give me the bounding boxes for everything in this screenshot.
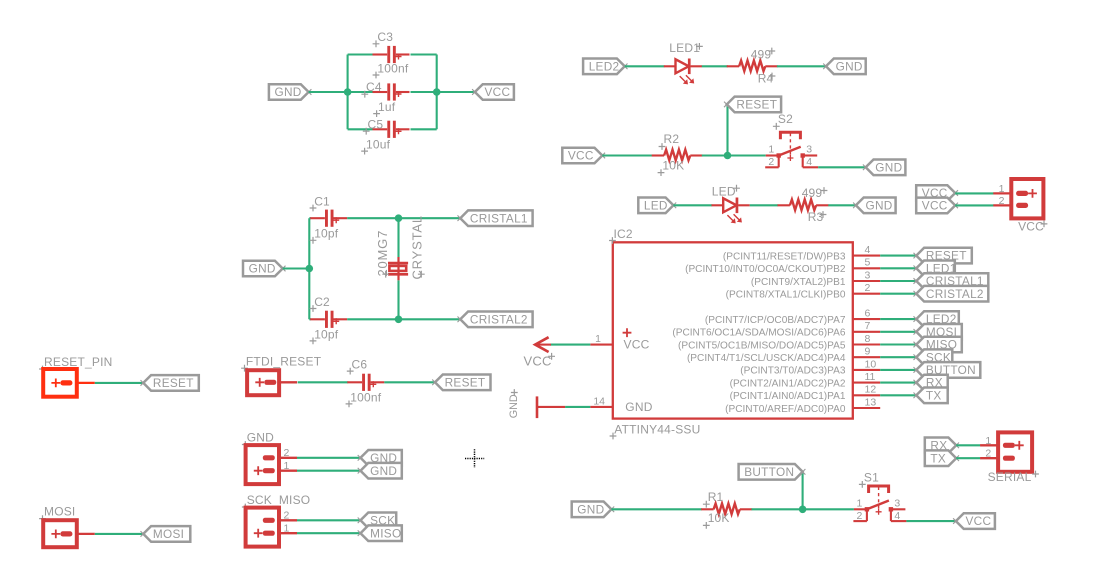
svg-text:RESET: RESET xyxy=(736,98,777,112)
wire FTDI_RESET to C6 xyxy=(298,381,349,383)
svg-text:11: 11 xyxy=(865,371,876,383)
svg-text:VCC: VCC xyxy=(922,199,948,213)
svg-text:4: 4 xyxy=(865,244,871,256)
capacitor C4 xyxy=(373,91,388,93)
wire pin to CRISTAL1 flag xyxy=(880,280,916,282)
wire VCC pin1 xyxy=(955,192,993,194)
wire C1 row left xyxy=(309,217,311,219)
wire R1 to junction xyxy=(752,508,803,510)
svg-text:GND: GND xyxy=(836,59,863,73)
wire pin to CRISTAL2 flag xyxy=(880,293,916,295)
net flag TX (IC right) xyxy=(916,388,947,404)
net flag VCC (conn pin1) xyxy=(916,185,955,201)
wire pin to MISO flag xyxy=(880,343,916,345)
junction right rail xyxy=(433,88,441,96)
IC2 pin 2 PB0 xyxy=(853,293,880,295)
wire pin to SCK flag xyxy=(880,356,916,358)
svg-text:C1: C1 xyxy=(314,194,330,208)
sheet origin crosshair xyxy=(465,449,484,468)
svg-text:9: 9 xyxy=(865,346,871,358)
svg-text:10pf: 10pf xyxy=(314,327,339,341)
svg-text:(PCINT8/XTAL1/CLKI)PB0: (PCINT8/XTAL1/CLKI)PB0 xyxy=(726,290,846,301)
junction crystal top xyxy=(395,214,403,222)
net flag RESET (reset circuit) xyxy=(727,97,781,113)
wire C5 row right xyxy=(411,128,437,130)
net flag VCC (reset row) xyxy=(562,148,602,164)
svg-text:2: 2 xyxy=(284,447,290,459)
IC2 pin 8 PA5 xyxy=(853,343,880,345)
IC2 pin 12 PA1 xyxy=(853,394,880,396)
wire GND pin2 to flag xyxy=(297,457,361,459)
wire pin to RX flag xyxy=(880,382,916,384)
svg-text:(PCINT5/OC1B/MISO/DO/ADC5)PA5: (PCINT5/OC1B/MISO/DO/ADC5)PA5 xyxy=(678,340,846,351)
IC2 pin 9 PA4 xyxy=(853,356,880,358)
wire SCK pin2 to flag xyxy=(297,519,361,521)
wire LED to R3 xyxy=(750,204,779,206)
net flag GND (crystal) xyxy=(243,261,283,277)
wire S2 to GND xyxy=(818,166,866,168)
svg-text:TX: TX xyxy=(926,388,942,402)
svg-text:10K: 10K xyxy=(662,158,684,172)
net flag RESET (IC right) xyxy=(916,248,972,264)
svg-text:(PCINT0/AREF/ADC0)PA0: (PCINT0/AREF/ADC0)PA0 xyxy=(725,404,846,415)
svg-text:2: 2 xyxy=(999,195,1005,207)
svg-text:2: 2 xyxy=(284,510,290,522)
capacitor C6 xyxy=(347,381,362,383)
svg-text:VCC: VCC xyxy=(624,338,650,352)
svg-text:7: 7 xyxy=(865,320,871,332)
net flag RX (IC right) xyxy=(916,375,947,391)
svg-text:2: 2 xyxy=(857,510,863,522)
IC2 pin 7 PA6 xyxy=(853,331,880,333)
LED LED1 xyxy=(664,65,676,67)
svg-text:MOSI: MOSI xyxy=(44,505,75,519)
net flag GND (cap bank) xyxy=(269,84,309,100)
svg-text:C5: C5 xyxy=(368,118,384,132)
wire pin to LED1 flag xyxy=(880,267,916,269)
capacitor C2 xyxy=(310,318,325,320)
resistor R1 xyxy=(701,508,713,510)
net flag VCC (cap bank) xyxy=(475,84,514,100)
svg-text:CRISTAL2: CRISTAL2 xyxy=(926,287,984,301)
crystal Q1 20MG7 xyxy=(397,257,399,280)
svg-text:SERIAL: SERIAL xyxy=(988,470,1032,484)
wire pin14 to GND symbol xyxy=(565,406,590,408)
net flag RX xyxy=(925,438,956,454)
svg-text:GND: GND xyxy=(508,394,520,418)
wire pin1 to VCC arrow xyxy=(550,344,590,346)
svg-text:1uf: 1uf xyxy=(378,100,396,114)
connector VCC xyxy=(1011,179,1043,218)
net flag MISO (IC right) xyxy=(916,337,962,353)
svg-text:VCC: VCC xyxy=(1018,220,1044,234)
svg-text:GND: GND xyxy=(866,198,893,212)
wire GND pin1 to flag xyxy=(297,470,361,472)
svg-text:3: 3 xyxy=(865,269,871,281)
svg-text:(PCINT10/INT0/OC0A/CKOUT)PB2: (PCINT10/INT0/OC0A/CKOUT)PB2 xyxy=(685,264,846,275)
wire GND to R1 xyxy=(611,508,702,510)
LED LED xyxy=(712,204,724,206)
net flag MOSI (conn) xyxy=(143,526,190,542)
net flag BUTTON (IC right) xyxy=(916,362,980,378)
wire S1 to VCC xyxy=(906,520,956,522)
net flag GND (button row) xyxy=(572,502,612,518)
svg-text:GND: GND xyxy=(247,431,274,445)
wire RX to serial xyxy=(956,444,980,446)
svg-text:MOSI: MOSI xyxy=(153,527,184,541)
svg-text:(PCINT4/T1/SCL/USCK/ADC4)PA4: (PCINT4/T1/SCL/USCK/ADC4)PA4 xyxy=(687,353,846,364)
svg-text:LED: LED xyxy=(644,198,668,212)
net flag SCK (conn) xyxy=(361,513,397,529)
svg-text:R4: R4 xyxy=(758,72,774,86)
svg-text:3: 3 xyxy=(806,144,812,156)
wire pin to RESET flag xyxy=(880,255,916,257)
IC U IC2 box xyxy=(613,242,853,418)
svg-text:LED2: LED2 xyxy=(589,59,620,73)
svg-text:GND: GND xyxy=(875,160,902,174)
wire MISO pin1 to flag xyxy=(297,532,361,534)
svg-text:(PCINT3/T0/ADC3)PA3: (PCINT3/T0/ADC3)PA3 xyxy=(740,366,846,377)
svg-text:1: 1 xyxy=(284,460,290,472)
capacitor C5 xyxy=(373,128,388,130)
junction reset node xyxy=(724,152,732,160)
svg-text:(PCINT1/AIN0/ADC1)PA1: (PCINT1/AIN0/ADC1)PA1 xyxy=(730,391,846,402)
wire junction to RESET flag xyxy=(726,105,728,156)
svg-text:CRISTAL1: CRISTAL1 xyxy=(470,211,528,225)
wire LED2 to LED1 xyxy=(625,65,665,67)
svg-text:S1: S1 xyxy=(864,470,879,484)
wire R3 to GND xyxy=(828,204,856,206)
net flag VCC (conn pin2) xyxy=(916,198,955,214)
wire C3 row right xyxy=(411,53,437,55)
capacitor C1 xyxy=(310,217,325,219)
svg-text:TX: TX xyxy=(930,451,946,465)
svg-text:10pf: 10pf xyxy=(314,227,339,241)
svg-text:499: 499 xyxy=(802,186,823,200)
wire C3 row left xyxy=(348,53,373,55)
svg-text:1: 1 xyxy=(595,333,601,345)
svg-text:100nf: 100nf xyxy=(350,390,381,404)
svg-text:10uf: 10uf xyxy=(366,138,391,152)
svg-text:1: 1 xyxy=(284,523,290,535)
net flag LED2 (IC right) xyxy=(916,311,959,327)
IC2 pin 14 GND xyxy=(590,406,613,408)
svg-text:C2: C2 xyxy=(314,295,330,309)
svg-text:8: 8 xyxy=(865,333,871,345)
svg-text:1: 1 xyxy=(985,435,991,447)
svg-text:VCC: VCC xyxy=(524,354,552,369)
wire C4 row left xyxy=(348,91,373,93)
svg-text:2: 2 xyxy=(985,448,991,460)
IC2 pin 5 PB2 xyxy=(853,267,880,269)
junction crystal gnd xyxy=(306,265,314,273)
net flag GND (conn pin2) xyxy=(361,450,402,466)
wire pin to MOSI flag xyxy=(880,331,916,333)
svg-text:VCC: VCC xyxy=(485,85,511,99)
svg-text:1: 1 xyxy=(999,183,1005,195)
svg-text:C3: C3 xyxy=(377,30,393,44)
net flag CRISTAL2 xyxy=(460,312,532,328)
svg-text:5: 5 xyxy=(865,257,871,269)
svg-text:C4: C4 xyxy=(366,80,382,94)
wire MOSI to flag xyxy=(95,533,144,535)
svg-text:1: 1 xyxy=(857,498,863,510)
wire junction to BUTTON flag xyxy=(802,472,804,510)
svg-text:2: 2 xyxy=(768,156,774,168)
wire LED flag to LED xyxy=(673,204,712,206)
svg-text:CRISTAL2: CRISTAL2 xyxy=(470,312,528,326)
svg-text:R1: R1 xyxy=(708,490,724,504)
connector SERIAL xyxy=(998,432,1032,471)
IC2 pin 1 VCC xyxy=(590,344,613,346)
net flag LED2 (left) xyxy=(583,59,625,75)
svg-text:GND: GND xyxy=(625,400,652,414)
wire crystal top lead xyxy=(397,218,399,257)
net flag LED (left) xyxy=(638,198,673,214)
wire junction to S2 xyxy=(728,154,766,156)
svg-text:10: 10 xyxy=(865,358,877,370)
wire C5 row left xyxy=(348,128,373,130)
svg-text:CRYSTAL: CRYSTAL xyxy=(409,215,424,279)
IC2 pin 10 PA3 xyxy=(853,369,880,371)
wire GND to rail xyxy=(309,91,348,93)
wire LED1 to R4 xyxy=(702,65,728,67)
svg-text:RESET_PIN: RESET_PIN xyxy=(44,355,113,369)
net flag CRISTAL1 (IC right) xyxy=(916,273,988,289)
wire crystal bottom lead xyxy=(397,280,399,319)
svg-text:14: 14 xyxy=(593,395,605,407)
junction left rail xyxy=(344,88,352,96)
svg-text:SCK_MISO: SCK_MISO xyxy=(247,493,311,507)
wire C6 to RESET flag xyxy=(384,381,435,383)
net flag SCK (IC right) xyxy=(916,349,952,365)
switch S1 xyxy=(854,508,867,510)
svg-text:3: 3 xyxy=(894,498,900,510)
net flag CRISTAL2 (IC right) xyxy=(916,286,988,302)
svg-text:2: 2 xyxy=(865,282,871,294)
net flag VCC (S1) xyxy=(956,513,995,529)
wire pin to BUTTON flag xyxy=(880,369,916,371)
svg-text:(PCINT7/ICP/OC0B/ADC7)PA7: (PCINT7/ICP/OC0B/ADC7)PA7 xyxy=(705,315,846,326)
wire VCC to R2 xyxy=(602,154,652,156)
wire left rail xyxy=(347,55,349,130)
wire pin to TX flag xyxy=(880,394,916,396)
svg-text:1: 1 xyxy=(768,144,774,156)
IC2 pin 3 PB1 xyxy=(853,280,880,282)
wire RESET_PIN to RESET flag xyxy=(95,382,144,384)
svg-text:LED: LED xyxy=(712,185,736,199)
supply symbol VCC (arrow) xyxy=(535,344,551,346)
wire C2 to crystal node xyxy=(347,318,460,320)
resistor R4 xyxy=(727,65,739,67)
IC2 pin 11 PA2 xyxy=(853,382,880,384)
svg-text:GND: GND xyxy=(577,502,604,516)
svg-text:VCC: VCC xyxy=(568,149,594,163)
net flag TX xyxy=(925,450,956,466)
net flag GND (conn pin1) xyxy=(361,463,402,479)
wire pin to LED2 flag xyxy=(880,318,916,320)
wire GND to rail (crystal) xyxy=(283,267,310,269)
wire right rail xyxy=(436,55,438,130)
junction crystal bottom xyxy=(395,316,403,324)
net flag RESET (FTDI) xyxy=(435,375,491,391)
wire C4 row right xyxy=(411,91,437,93)
svg-text:VCC: VCC xyxy=(966,514,992,528)
svg-text:R2: R2 xyxy=(664,132,680,146)
IC2 pin 4 PB3 xyxy=(853,255,880,257)
svg-text:12: 12 xyxy=(865,384,877,396)
net flag BUTTON xyxy=(739,464,803,480)
svg-text:6: 6 xyxy=(865,308,871,320)
resistor R2 xyxy=(652,154,664,156)
wire rail to VCC xyxy=(437,91,475,93)
net flag GND (LED row) xyxy=(856,198,896,214)
svg-text:C6: C6 xyxy=(352,358,368,372)
svg-text:(PCINT2/AIN1/ADC2)PA2: (PCINT2/AIN1/ADC2)PA2 xyxy=(730,378,846,389)
wire crystal left rail xyxy=(308,218,310,319)
capacitor C3 xyxy=(373,53,388,55)
svg-text:4: 4 xyxy=(894,510,900,522)
svg-text:FTDI_RESET: FTDI_RESET xyxy=(246,354,322,368)
svg-text:MISO: MISO xyxy=(370,526,401,540)
svg-text:(PCINT11/RESET/DW)PB3: (PCINT11/RESET/DW)PB3 xyxy=(723,251,846,262)
svg-text:499: 499 xyxy=(751,48,772,62)
wire R2 to junction xyxy=(702,154,728,156)
svg-text:GND: GND xyxy=(370,464,397,478)
svg-text:RESET: RESET xyxy=(153,376,194,390)
net flag GND (LED1 row) xyxy=(826,59,866,75)
wire junction to S1 xyxy=(803,508,854,510)
wire TX to serial xyxy=(956,457,980,459)
svg-text:ATTINY44-SSU: ATTINY44-SSU xyxy=(614,422,700,436)
wire C1 to crystal node xyxy=(347,217,460,219)
svg-text:GND: GND xyxy=(249,262,276,276)
IC2 pin 6 PA7 xyxy=(853,318,880,320)
svg-text:RESET: RESET xyxy=(445,375,486,389)
svg-text:(PCINT9/XTAL2)PB1: (PCINT9/XTAL2)PB1 xyxy=(751,277,846,288)
svg-text:100nf: 100nf xyxy=(377,61,408,75)
junction button node xyxy=(799,506,807,514)
net flag LED1 (IC right) xyxy=(916,261,955,277)
supply symbol GND (bar) xyxy=(538,406,565,408)
resistor R3 xyxy=(778,204,790,206)
svg-text:GND: GND xyxy=(275,85,302,99)
IC2 pin 13 PA0 xyxy=(853,407,880,409)
net flag MISO (conn) xyxy=(361,525,402,541)
net flag MOSI (IC right) xyxy=(916,324,962,340)
net flag GND (S2) xyxy=(866,160,906,176)
wire R4 to GND xyxy=(777,65,826,67)
wire C2 row left xyxy=(309,318,311,320)
svg-text:(PCINT6/OC1A/SDA/MOSI/ADC6)PA6: (PCINT6/OC1A/SDA/MOSI/ADC6)PA6 xyxy=(672,328,846,339)
svg-text:13: 13 xyxy=(865,396,877,408)
net flag CRISTAL1 xyxy=(460,210,532,226)
switch S2 xyxy=(766,154,779,156)
svg-text:4: 4 xyxy=(806,156,812,168)
svg-text:IC2: IC2 xyxy=(614,227,633,241)
svg-text:R3: R3 xyxy=(808,210,824,224)
svg-text:20MG7: 20MG7 xyxy=(375,230,390,277)
svg-text:10K: 10K xyxy=(708,511,730,525)
svg-text:BUTTON: BUTTON xyxy=(744,465,794,479)
net flag RESET (RESET_PIN) xyxy=(143,375,199,391)
svg-text:LED1: LED1 xyxy=(669,41,700,55)
wire VCC pin2 xyxy=(955,204,993,206)
svg-text:S2: S2 xyxy=(778,112,793,126)
